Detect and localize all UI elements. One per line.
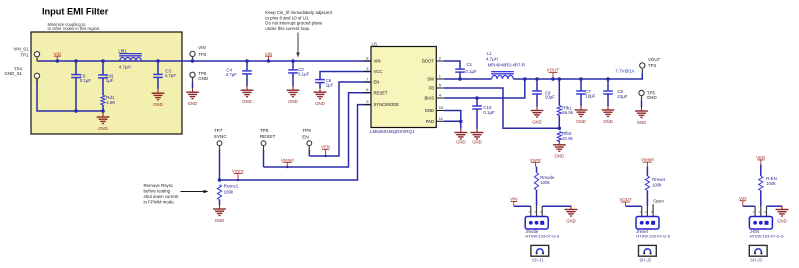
capacitor Cd1 1uF	[101, 59, 105, 63]
svg-text:10: 10	[439, 105, 444, 110]
pin 6 RESET	[364, 92, 372, 94]
wire PAD pin	[444, 121, 461, 128]
pin 2 BOOT	[436, 60, 444, 62]
ground GND (U1 pad)	[460, 129, 462, 133]
wire Jreset pin1	[626, 205, 642, 207]
ground GND (C3)	[157, 89, 159, 93]
svg-text:66.5k: 66.5k	[562, 110, 574, 115]
capacitor C7 10uF	[579, 77, 583, 81]
svg-text:0.1µF: 0.1µF	[298, 71, 310, 76]
svg-text:4.99: 4.99	[106, 100, 115, 105]
svg-text:Rmode: Rmode	[540, 175, 555, 180]
svg-text:9: 9	[366, 99, 369, 104]
svg-text:TP1: TP1	[20, 52, 29, 57]
wire GND pin	[444, 111, 461, 122]
ground GND (Rfb2)	[558, 141, 560, 145]
capacitor C10 0.1uF (BIAS)	[475, 96, 479, 100]
testpoint TP1	[36, 57, 38, 61]
svg-text:TP8: TP8	[260, 128, 269, 133]
svg-text:100k: 100k	[540, 180, 550, 185]
svg-text:RESET: RESET	[260, 134, 276, 139]
ground GND (Rsync1)	[219, 205, 221, 209]
svg-text:VIN: VIN	[374, 59, 381, 64]
op-amp U1 LM53601MQDSXRQ1 regulator	[371, 47, 436, 128]
connector Jreset HTSW-103-07-G-S	[636, 217, 659, 230]
wire SW	[444, 78, 492, 80]
svg-text:VIN_S1: VIN_S1	[13, 47, 29, 52]
svg-text:SYNC: SYNC	[214, 134, 228, 139]
svg-text:under this current loop.: under this current loop.	[265, 26, 310, 31]
svg-text:2: 2	[534, 210, 536, 214]
svg-text:MPI4040R3-4R7-R: MPI4040R3-4R7-R	[488, 63, 525, 68]
testpoint TP3 VOUT	[640, 63, 645, 68]
svg-text:GND_S1: GND_S1	[4, 71, 22, 76]
svg-text:R-EN: R-EN	[766, 176, 777, 181]
svg-text:2: 2	[758, 210, 760, 214]
svg-text:in FPWM mode: in FPWM mode	[144, 200, 175, 205]
svg-text:EN: EN	[302, 135, 309, 140]
svg-text:8: 8	[366, 56, 369, 61]
svg-text:2: 2	[439, 56, 442, 61]
ground GND (C2)	[292, 86, 294, 90]
pin 7 EN	[364, 81, 372, 83]
svg-text:4.7µH: 4.7µH	[119, 64, 131, 69]
svg-text:Lflt1: Lflt1	[118, 49, 127, 54]
svg-text:VEN: VEN	[321, 145, 330, 150]
wire Jreset pin3 open	[652, 204, 654, 216]
resistor Rsync1 100k	[217, 185, 221, 200]
svg-text:3: 3	[651, 210, 653, 214]
pin 5 FB	[436, 87, 444, 89]
ground GND (C7)	[580, 106, 582, 110]
capacitor C6 1uF (VCC)	[320, 72, 371, 80]
svg-text:TP9: TP9	[302, 128, 311, 133]
svg-text:PAD: PAD	[426, 119, 434, 124]
pin 1 SW	[436, 78, 444, 80]
jumper SH-J2	[639, 245, 657, 256]
svg-text:GND: GND	[647, 95, 657, 100]
capacitor C2 0.1uF	[291, 59, 295, 63]
svg-text:GND: GND	[472, 139, 482, 144]
wire GND_S return rail	[37, 79, 103, 111]
svg-text:1: 1	[639, 210, 641, 214]
resistor Rfb2 10.0k	[557, 132, 561, 142]
svg-text:11: 11	[439, 116, 444, 121]
capacitor C9 10uF	[535, 77, 539, 81]
resistor Rd1 4.99	[101, 95, 105, 105]
capacitor C4 4.7uF	[245, 59, 249, 63]
capacitor C1 0.1uF	[455, 68, 465, 70]
svg-text:VEN: VEN	[756, 155, 765, 160]
svg-text:2: 2	[645, 210, 647, 214]
wire Jmode pin1	[514, 205, 531, 207]
svg-text:Keep Cin_hf immediately adjace: Keep Cin_hf immediately adjacent	[265, 10, 332, 15]
wire J-EN pin3 to GND	[766, 206, 768, 216]
connector Jmode HTSW-103-07-G-S	[525, 217, 548, 230]
svg-text:HTSW-103-07-G-S: HTSW-103-07-G-S	[636, 234, 670, 239]
pin 11 PAD	[436, 120, 444, 122]
svg-text:0.1µF: 0.1µF	[465, 69, 477, 74]
wire FB net	[444, 88, 560, 128]
ground GND (Jmode)	[570, 206, 572, 210]
svg-text:Vreset: Vreset	[281, 157, 295, 162]
capacitor C3 4.7uF	[156, 59, 160, 63]
ground GND (C6)	[319, 88, 321, 92]
resistor Rfb1 66.5k	[558, 77, 562, 81]
svg-text:VIN: VIN	[265, 51, 273, 56]
svg-text:VOUT: VOUT	[648, 57, 661, 62]
svg-text:SW: SW	[427, 77, 434, 82]
wire VOUT rail	[513, 73, 642, 79]
ground GND (C9)	[536, 107, 538, 111]
svg-text:BOOT: BOOT	[422, 59, 434, 64]
svg-text:22µF: 22µF	[617, 94, 627, 99]
jumper SH-J1	[531, 245, 549, 256]
svg-text:0.1µF: 0.1µF	[483, 110, 495, 115]
svg-text:GND: GND	[637, 120, 647, 125]
svg-text:GND: GND	[188, 101, 198, 106]
svg-text:VIN: VIN	[739, 196, 747, 201]
ground GND (C10)	[476, 129, 478, 133]
svg-text:4.7µF: 4.7µF	[226, 72, 238, 77]
resistor Rmode 100k	[536, 167, 538, 173]
pin 8 VIN	[364, 60, 372, 62]
svg-text:TP7: TP7	[214, 128, 223, 133]
svg-text:EN: EN	[374, 80, 380, 85]
svg-text:GND: GND	[315, 101, 325, 106]
svg-text:GND: GND	[576, 119, 586, 124]
svg-text:SYNC/MODE: SYNC/MODE	[374, 102, 400, 107]
svg-text:3: 3	[366, 66, 369, 71]
ground GND (EMI box)	[102, 111, 104, 113]
ground GND (C4)	[246, 86, 248, 90]
pin 4 BIAS	[436, 97, 444, 99]
note arrow to input node	[297, 33, 299, 53]
svg-text:1µF: 1µF	[326, 83, 334, 88]
pin 10 GND	[436, 110, 444, 112]
wire BIAS net	[444, 79, 525, 98]
svg-text:LM53601MQDSXRQ1: LM53601MQDSXRQ1	[370, 129, 415, 134]
svg-text:GND: GND	[425, 108, 434, 113]
wire main VIN rail	[37, 60, 371, 62]
svg-text:4.7µF: 4.7µF	[165, 73, 177, 78]
wire J-EN pin1	[743, 205, 755, 207]
svg-text:SH-J2: SH-J2	[640, 258, 652, 263]
svg-text:7: 7	[366, 77, 369, 82]
svg-text:1: 1	[753, 210, 755, 214]
svg-text:GND: GND	[555, 154, 565, 159]
jumper SH-J3	[749, 245, 767, 256]
svg-text:Vreset: Vreset	[641, 157, 655, 162]
svg-text:BIAS: BIAS	[424, 96, 434, 101]
svg-text:10µF: 10µF	[585, 94, 595, 99]
svg-text:1: 1	[528, 210, 530, 214]
pin 9 SYNC/MODE	[364, 104, 372, 106]
testpoint TP2 VIN	[192, 56, 194, 59]
svg-text:RESET: RESET	[374, 90, 388, 95]
svg-text:VOUT: VOUT	[547, 68, 560, 73]
svg-text:4: 4	[439, 93, 442, 98]
pin 3 VCC	[364, 71, 372, 73]
connector J-EN HTSW-103-07-G-S	[749, 217, 772, 230]
resistor Rreset 100k	[646, 167, 648, 177]
svg-text:1: 1	[439, 74, 442, 79]
svg-text:Open: Open	[653, 199, 664, 204]
ground GND (TP6)	[192, 88, 194, 92]
svg-text:SH-J3: SH-J3	[750, 258, 762, 263]
svg-text:0.1µF: 0.1µF	[80, 78, 92, 83]
svg-text:100k: 100k	[224, 189, 234, 194]
svg-text:Input EMI Filter: Input EMI Filter	[42, 6, 109, 16]
wire RESET net	[264, 93, 372, 167]
svg-text:L1: L1	[487, 51, 492, 56]
svg-text:4.7µH: 4.7µH	[486, 57, 498, 62]
svg-text:Remove Rsync: Remove Rsync	[144, 183, 175, 188]
svg-text:Do not interrupt ground plane: Do not interrupt ground plane	[265, 21, 323, 26]
svg-text:GND: GND	[215, 218, 225, 223]
svg-text:3: 3	[764, 210, 766, 214]
svg-text:VCC: VCC	[374, 69, 383, 74]
svg-text:TP2: TP2	[198, 52, 207, 57]
svg-text:GND: GND	[532, 119, 542, 124]
svg-text:VIN: VIN	[510, 197, 518, 202]
svg-text:3: 3	[540, 210, 542, 214]
svg-text:GND: GND	[198, 76, 208, 81]
svg-text:HTSW-103-07-G-S: HTSW-103-07-G-S	[750, 234, 784, 239]
wire BOOT	[444, 61, 460, 69]
svg-text:100k: 100k	[652, 182, 662, 187]
svg-text:FB: FB	[429, 86, 435, 91]
wire SYNC net	[220, 105, 372, 180]
svg-text:Vsync: Vsync	[232, 169, 245, 174]
svg-text:Vsync: Vsync	[529, 157, 542, 162]
svg-text:SH-J1: SH-J1	[532, 258, 544, 263]
note arrow to Rsync	[181, 191, 205, 193]
svg-text:1µF: 1µF	[106, 78, 114, 83]
svg-text:TP3: TP3	[648, 63, 657, 68]
svg-text:Rsync1: Rsync1	[224, 184, 239, 189]
svg-text:to pins 8 and 10 of U1.: to pins 8 and 10 of U1.	[265, 15, 309, 20]
ground GND (J-EN)	[781, 206, 783, 210]
svg-text:HTSW-103-07-G-S: HTSW-103-07-G-S	[525, 234, 559, 239]
svg-text:10.0k: 10.0k	[562, 136, 574, 141]
svg-text:GND: GND	[153, 102, 163, 107]
svg-text:to other nodes in this region.: to other nodes in this region.	[48, 26, 101, 31]
svg-text:100k: 100k	[766, 181, 776, 186]
wire EN net	[309, 82, 371, 156]
resistor R-EN 100k	[760, 165, 762, 177]
svg-text:VIN: VIN	[198, 45, 205, 50]
svg-text:before testing: before testing	[144, 188, 171, 193]
svg-text:GND: GND	[777, 218, 787, 223]
svg-text:GND: GND	[98, 126, 108, 131]
svg-text:VIN: VIN	[54, 51, 62, 56]
testpoint TP5 GND	[639, 90, 644, 95]
ground GND (C8)	[607, 106, 609, 110]
svg-text:VOUT: VOUT	[619, 197, 632, 202]
svg-text:Rreset: Rreset	[652, 177, 666, 182]
svg-text:GND: GND	[456, 139, 466, 144]
svg-text:GND: GND	[242, 99, 252, 104]
capacitor C5 0.1uF	[74, 59, 78, 63]
svg-text:U1: U1	[372, 41, 378, 46]
svg-text:GND: GND	[603, 119, 613, 124]
capacitor C8 22uF	[606, 77, 610, 81]
svg-text:C1: C1	[467, 62, 473, 67]
svg-text:5: 5	[439, 83, 442, 88]
ground GND (TP5)	[641, 107, 643, 111]
svg-text:6: 6	[366, 87, 369, 92]
svg-text:shut down current: shut down current	[144, 194, 180, 199]
svg-text:GND: GND	[288, 99, 298, 104]
svg-text:10µF: 10µF	[545, 95, 555, 100]
svg-text:GND: GND	[566, 218, 576, 223]
wire Jmode pin3 to GND	[541, 206, 543, 216]
svg-text:7.7V@1A: 7.7V@1A	[615, 68, 634, 73]
testpoint TP6 GND	[190, 72, 195, 77]
Input EMI filter shaded region	[31, 32, 182, 134]
testpoint TP4	[36, 79, 38, 83]
